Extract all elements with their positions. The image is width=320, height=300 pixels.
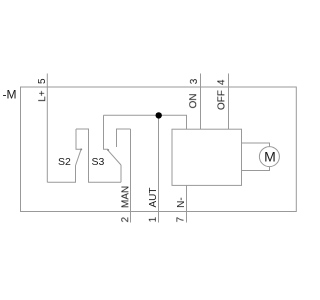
- svg-text:S3: S3: [92, 156, 105, 168]
- svg-text:1: 1: [148, 216, 159, 222]
- svg-text:MAN: MAN: [120, 186, 131, 208]
- svg-text:S2: S2: [58, 156, 71, 168]
- svg-text:OFF: OFF: [216, 90, 227, 110]
- svg-text:L+: L+: [37, 90, 48, 102]
- svg-text:N-: N-: [176, 197, 187, 208]
- svg-text:AUT: AUT: [148, 188, 159, 208]
- svg-text:4: 4: [216, 79, 227, 85]
- svg-text:5: 5: [37, 78, 48, 84]
- svg-text:ON: ON: [188, 94, 199, 109]
- svg-text:3: 3: [189, 78, 200, 84]
- svg-text:7: 7: [175, 216, 186, 222]
- svg-text:-M: -M: [3, 87, 17, 101]
- svg-text:2: 2: [120, 217, 131, 223]
- svg-text:M: M: [264, 149, 276, 165]
